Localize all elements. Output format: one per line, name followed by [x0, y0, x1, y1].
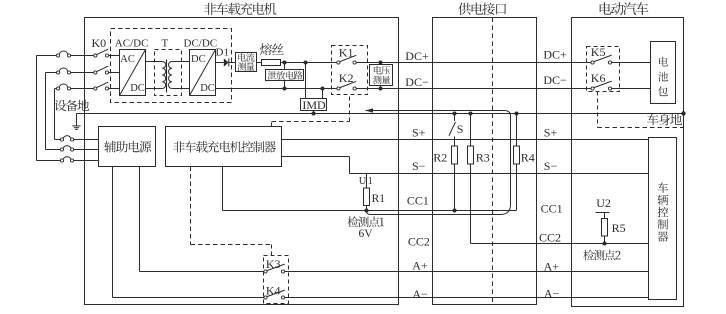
svg-text:R2: R2: [433, 151, 447, 165]
svg-text:DC: DC: [200, 83, 215, 94]
svg-text:A−: A−: [544, 287, 560, 301]
svg-text:AC: AC: [120, 54, 135, 65]
svg-text:DC+: DC+: [543, 47, 567, 61]
svg-text:DC/DC: DC/DC: [184, 38, 218, 50]
svg-text:IMD: IMD: [302, 98, 326, 112]
svg-text:S+: S+: [544, 126, 558, 140]
svg-text:DC+: DC+: [405, 49, 429, 63]
svg-text:R4: R4: [521, 151, 535, 165]
svg-text:U2: U2: [596, 196, 611, 210]
svg-text:S+: S+: [412, 126, 426, 140]
svg-text:1: 1: [368, 176, 373, 187]
svg-text:R3: R3: [476, 151, 490, 165]
svg-text:DC−: DC−: [543, 73, 567, 87]
svg-text:S−: S−: [412, 159, 426, 173]
svg-text:A−: A−: [412, 287, 428, 301]
svg-text:DC: DC: [130, 83, 145, 94]
svg-text:DC−: DC−: [405, 75, 429, 89]
svg-text:S−: S−: [544, 159, 558, 173]
svg-text:T: T: [162, 38, 169, 50]
svg-text:CC2: CC2: [408, 235, 430, 249]
svg-text:R5: R5: [612, 221, 626, 235]
svg-text:R1: R1: [372, 193, 386, 205]
svg-text:S: S: [457, 122, 464, 136]
svg-text:U: U: [359, 176, 367, 187]
svg-text:K6: K6: [591, 71, 606, 85]
svg-text:CC2: CC2: [539, 231, 561, 245]
svg-text:DC: DC: [191, 54, 206, 65]
svg-text:D1: D1: [216, 46, 229, 58]
svg-text:CC1: CC1: [541, 202, 563, 216]
svg-text:6V: 6V: [358, 228, 373, 240]
svg-text:A+: A+: [412, 258, 428, 272]
svg-text:K5: K5: [591, 45, 606, 59]
svg-text:K4: K4: [266, 284, 281, 298]
svg-text:K0: K0: [92, 36, 107, 50]
svg-text:CC1: CC1: [407, 193, 429, 207]
svg-text:AC/DC: AC/DC: [115, 38, 149, 50]
